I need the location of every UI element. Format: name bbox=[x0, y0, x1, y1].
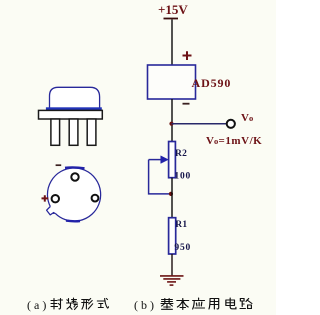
svg-text:100: 100 bbox=[174, 171, 191, 181]
node B junction dot bbox=[169, 192, 173, 196]
caption (b) hanzi ji ben ying yong dian lu bbox=[161, 298, 252, 310]
svg-text:950: 950 bbox=[174, 243, 191, 253]
package bottom view: top thick arc bbox=[65, 166, 85, 169]
package bottom view: can outline bbox=[47, 168, 100, 221]
wire AD590 to node A bbox=[171, 99, 173, 124]
package bottom view: pin top bbox=[71, 173, 78, 180]
svg-text:=1mV/K: =1mV/K bbox=[219, 135, 263, 147]
wire node A to R2 bbox=[171, 124, 173, 142]
ground bbox=[160, 276, 184, 285]
Vo terminal circle bbox=[227, 120, 235, 128]
svg-text:AD590: AD590 bbox=[192, 76, 232, 90]
resistor R2 body bbox=[169, 142, 176, 178]
plus polarity mark bbox=[183, 51, 192, 60]
bottom view plus mark bbox=[42, 195, 49, 201]
wire node A to Vo terminal bbox=[172, 123, 227, 125]
wire wiper to node B bbox=[149, 160, 171, 194]
label Vo=1mV/K bbox=[206, 135, 262, 147]
package bottom view: pin left bbox=[52, 195, 59, 202]
package bottom view: tab dot bbox=[53, 212, 55, 214]
wire supply to AD590 bbox=[171, 20, 173, 66]
label Vo bbox=[241, 112, 253, 124]
package side view: base bbox=[39, 110, 103, 119]
node A junction dot bbox=[169, 122, 173, 126]
package side view: lead 1 bbox=[51, 119, 60, 145]
caption (a) hanzi feng zhuang xing shi bbox=[51, 298, 109, 310]
svg-text:R1: R1 bbox=[175, 220, 187, 230]
package side view: lead 3 bbox=[87, 119, 96, 145]
svg-text:V: V bbox=[206, 135, 214, 147]
minus polarity mark bbox=[183, 103, 190, 105]
svg-text:o: o bbox=[249, 113, 253, 123]
svg-text:V: V bbox=[241, 112, 249, 124]
package side view: lead 2 bbox=[69, 119, 78, 145]
svg-text:+15V: +15V bbox=[158, 2, 188, 17]
supply terminal bar bbox=[164, 18, 179, 20]
package side view: flange bbox=[46, 107, 102, 110]
package side view: can dome bbox=[50, 87, 100, 107]
R2 wiper arrow bbox=[149, 156, 169, 164]
resistor R1 body bbox=[169, 218, 176, 254]
package bottom view: bottom thick arc bbox=[66, 219, 80, 222]
svg-text:( a ): ( a ) bbox=[27, 298, 46, 312]
package bottom view: pin right bbox=[92, 195, 99, 202]
svg-text:R2: R2 bbox=[175, 149, 187, 159]
svg-text:( b ): ( b ) bbox=[134, 298, 154, 312]
package bottom view: tab bbox=[47, 207, 56, 215]
wire R1 to ground bbox=[171, 254, 173, 276]
AD590 body U1 bbox=[148, 65, 196, 99]
wire R2 to R1 bbox=[171, 178, 173, 218]
bottom view minus mark bbox=[56, 164, 62, 166]
